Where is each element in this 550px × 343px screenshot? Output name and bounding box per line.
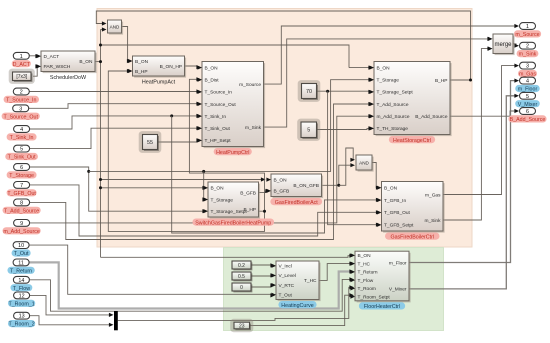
subsystem SchedulerDoW [36, 51, 96, 81]
svg-text:55: 55 [147, 140, 153, 146]
svg-text:0.5: 0.5 [238, 274, 245, 280]
wire inport9 m_Add_Source to HeatStorageCtrl [29, 114, 373, 223]
wire inport10 row to HeatingCurve T_Out [29, 245, 275, 297]
svg-text:T_Flow: T_Flow [358, 278, 374, 284]
wire HeatPumpCtrl m_Sink to merge in1 [264, 37, 493, 127]
svg-text:T_Room_1: T_Room_1 [8, 301, 34, 307]
svg-text:T_Storage_Setpt: T_Storage_Setpt [211, 209, 248, 215]
svg-text:4: 4 [526, 79, 529, 85]
inport 10 [12, 242, 31, 257]
svg-text:m_Sink: m_Sink [519, 52, 537, 58]
junction T_Sink_In branch [170, 114, 173, 117]
svg-text:T_GFB_Out: T_GFB_Out [7, 191, 36, 197]
svg-text:V_Incl: V_Incl [279, 264, 292, 270]
wire HeatPumpCtrl m_Source to outport1 [264, 24, 520, 84]
svg-text:B_ON: B_ON [358, 253, 372, 259]
svg-text:T_Room: T_Room [358, 286, 376, 292]
svg-text:B_ON: B_ON [205, 65, 219, 71]
svg-text:GasFiredBoilerCtrl: GasFiredBoilerCtrl [390, 234, 434, 240]
subsystem HeatingCurve [271, 261, 320, 309]
wire inport5 T_Sink_Out row [29, 126, 201, 149]
svg-text:11: 11 [18, 260, 24, 266]
svg-text:AND: AND [110, 25, 120, 30]
wire SchedulerDoW B_ON to junction [95, 61, 101, 63]
wire constant 0 to HeatingCurve V_RTC [251, 283, 275, 287]
wire inport1 D_ACT to SchedulerDoW [29, 54, 40, 58]
wire HeatPumpAct B_ON_HP to HeatPumpCtrl B_ON [185, 65, 202, 69]
logic AND U2 [356, 155, 374, 172]
svg-text:HeatPumpAct: HeatPumpAct [142, 79, 176, 85]
wire constant 0.2 to HeatingCurve V_Incl [251, 263, 275, 267]
junction B_ON to boiler act [99, 178, 102, 181]
svg-text:3: 3 [526, 64, 529, 70]
svg-text:B_HP: B_HP [435, 78, 448, 84]
svg-text:0.2: 0.2 [238, 263, 245, 269]
svg-text:T_Out: T_Out [14, 251, 29, 257]
svg-text:T_Source_In: T_Source_In [205, 90, 233, 96]
svg-text:HeatPumpCtrl: HeatPumpCtrl [216, 150, 249, 156]
svg-text:V_Mixer: V_Mixer [389, 287, 407, 293]
svg-text:m_Gas: m_Gas [425, 192, 441, 198]
wire GasFiredBoilerCtrl m_Sink to merge in2 [443, 47, 492, 221]
svg-text:SwitchGasFiredBoilerHeatPump: SwitchGasFiredBoilerHeatPump [195, 220, 271, 226]
svg-text:B_ON: B_ON [211, 186, 225, 192]
constant 5 [297, 119, 320, 141]
svg-text:14: 14 [18, 278, 24, 284]
wire inport6 T_Storage to Switch T_Storage_Setpt [29, 167, 207, 213]
svg-text:m_Floor: m_Floor [518, 87, 538, 93]
inport 1 [12, 52, 31, 67]
inport 3 [2, 105, 40, 120]
svg-text:B_Add_Source: B_Add_Source [415, 114, 448, 120]
svg-text:T_Storage: T_Storage [211, 197, 234, 203]
svg-text:T_Sink_Out: T_Sink_Out [205, 126, 231, 132]
wire T_Storage branch to Switch T_Storage [202, 171, 207, 201]
wire T_Storage row to HeatStorageCtrl [89, 78, 373, 172]
inport 7 [7, 182, 37, 197]
svg-text:m_Add_Source: m_Add_Source [377, 114, 410, 120]
wire inport2 T_Source_In row [29, 89, 201, 93]
wire constant 0.5 to HeatingCurve V_Level [251, 273, 275, 277]
svg-text:T_Return: T_Return [358, 270, 378, 276]
subsystem HeatPumpAct [128, 56, 186, 85]
wire Switch B_GFB to GasFiredBoilerAct B_GFB [259, 189, 271, 193]
outport 6 [508, 108, 546, 123]
inport 11 [7, 259, 34, 274]
svg-text:13: 13 [19, 314, 25, 320]
svg-text:T_Storage: T_Storage [9, 173, 34, 179]
subsystem GasFiredBoilerCtrl [377, 182, 445, 241]
svg-text:7: 7 [20, 183, 23, 189]
junction B_ON at y45 [99, 44, 102, 47]
area heat-generation (pink region) [97, 9, 472, 248]
junction B_ON_GFB [337, 184, 340, 187]
outport 2 [517, 42, 539, 57]
inport 8 [3, 199, 41, 214]
svg-text:m_Sink: m_Sink [245, 125, 262, 131]
label merge [494, 42, 512, 48]
inport 9 [3, 220, 41, 235]
svg-text:T_Add_Source: T_Add_Source [4, 208, 39, 214]
wire constant 5 to HeatStorageCtrl T_TH_Storage [317, 126, 374, 130]
svg-text:5: 5 [307, 128, 310, 134]
area floor-heating (green region) [224, 248, 444, 331]
wire constant 55 to HeatPumpCtrl T_HP_Setpt [158, 138, 202, 142]
inport 6 [7, 164, 37, 179]
svg-text:5: 5 [20, 147, 23, 153]
constant 0.2 [232, 261, 252, 270]
svg-text:B_ON: B_ON [79, 59, 93, 65]
svg-text:T_Source_Out: T_Source_Out [205, 102, 237, 108]
wire B_ON to HeatStorageCtrl B_ON [349, 66, 373, 70]
svg-text:T_HC: T_HC [304, 278, 317, 284]
svg-text:B_ON: B_ON [135, 59, 149, 65]
svg-text:5: 5 [526, 94, 529, 100]
wire B_ON_GFB branch to AND U2 in1 [339, 148, 355, 185]
junction B_HP feedback [469, 79, 472, 82]
inport 12 [8, 292, 35, 307]
subsystem SwitchGasFiredBoilerHeatPump [192, 182, 274, 226]
svg-text:2: 2 [526, 44, 529, 50]
inport 5 [5, 145, 38, 160]
junction B_ON at scheduler output [99, 60, 102, 63]
svg-text:2: 2 [20, 90, 23, 96]
svg-text:T_Sink_In: T_Sink_In [205, 114, 227, 120]
wire mux out to FloorHeaterCtrl T_Room [118, 285, 354, 320]
svg-text:B_ON: B_ON [377, 65, 391, 71]
wire B_ON to AND U1 in2 [101, 27, 107, 31]
constant 55 [139, 131, 162, 153]
svg-text:V_Level: V_Level [279, 273, 296, 279]
junction T_Storage at x88.7 [87, 170, 90, 173]
wire B_ON branch row to HeatStorageCtrl [101, 45, 350, 68]
wire B_ON to Switch B_ON [101, 186, 208, 190]
svg-text:FloorHeaterCtrl: FloorHeaterCtrl [364, 304, 400, 310]
wire FloorHeaterCtrl m_Floor to outport4 [409, 79, 519, 263]
mux block [114, 311, 118, 330]
svg-text:D_ACT: D_ACT [44, 54, 60, 60]
wire HeatStorageCtrl B_HP feedback to AND U1 in1 [96, 11, 470, 80]
wire merge out to outport2 [513, 44, 519, 48]
wire inport14 row to FloorHeaterCtrl T_Flow [30, 277, 354, 311]
svg-text:T_GFB_In: T_GFB_In [384, 198, 406, 204]
wire constant 23 to FloorHeaterCtrl T_Room_Setpt [250, 293, 355, 326]
wire inport7 T_GFB_Out to GasFiredBoilerCtrl T_GFB_Out [29, 185, 381, 236]
svg-text:GasFiredBoilerAct: GasFiredBoilerAct [275, 200, 319, 206]
wire GasFiredBoilerAct B_ON_GFB to AND U2 in2 [322, 163, 356, 185]
svg-text:V_Mixer: V_Mixer [518, 102, 538, 108]
logic AND U1 [108, 20, 124, 35]
wire FloorHeaterCtrl V_Mixer to outport5 [409, 94, 519, 289]
constant 0 [232, 283, 252, 292]
svg-text:T_Room_2: T_Room_2 [8, 322, 34, 328]
svg-text:T_Storage_Setpt: T_Storage_Setpt [377, 90, 414, 96]
subsystem HeatStorageCtrl [369, 62, 451, 144]
wire inport11 T_Return highlighted [29, 262, 350, 308]
outport 3 [518, 62, 537, 77]
svg-text:4: 4 [20, 127, 23, 133]
svg-text:HeatStorageCtrl: HeatStorageCtrl [393, 138, 431, 144]
wire 70 branch to GasFiredBoilerCtrl T_GFB_Setpt [328, 91, 381, 227]
svg-text:1: 1 [526, 24, 529, 30]
svg-text:merge: merge [494, 42, 512, 48]
svg-text:HeatingCurve: HeatingCurve [281, 303, 313, 309]
label AND U2 [359, 160, 369, 165]
outport 5 [515, 92, 540, 107]
svg-text:3: 3 [19, 106, 22, 112]
svg-text:T_Source_In: T_Source_In [6, 98, 36, 104]
junction B_ON to switch [99, 186, 102, 189]
svg-text:12: 12 [19, 293, 25, 299]
svg-text:V_RTC: V_RTC [279, 283, 295, 289]
svg-text:B_Add_Source: B_Add_Source [510, 117, 546, 123]
svg-text:B_GFB: B_GFB [274, 189, 290, 195]
svg-text:0: 0 [240, 285, 243, 291]
wire inport13 to mux in2 [29, 316, 114, 327]
svg-text:B_HP: B_HP [135, 69, 148, 75]
merge input arrows [488, 37, 493, 51]
svg-text:70: 70 [306, 89, 312, 95]
svg-text:8: 8 [20, 200, 23, 206]
svg-text:m_Source: m_Source [239, 82, 261, 88]
svg-text:D_ACT: D_ACT [13, 62, 31, 68]
svg-text:T_Storage: T_Storage [377, 78, 400, 84]
junction T_Storage to switch [202, 170, 205, 173]
svg-text:1: 1 [20, 54, 23, 60]
wire inport12 to mux in1 [29, 295, 114, 317]
svg-text:PAR_WSCH: PAR_WSCH [44, 64, 71, 70]
subsystem GasFiredBoilerAct [266, 174, 323, 206]
subsystem HeatPumpCtrl [197, 62, 265, 156]
inport 2 [4, 88, 39, 103]
svg-text:6: 6 [526, 109, 529, 115]
wire HeatStorageCtrl B_Add_Source to outport6 [450, 109, 519, 116]
svg-text:6: 6 [20, 165, 23, 171]
svg-text:m_Sink: m_Sink [425, 218, 442, 224]
junction 70 net [326, 90, 329, 93]
wire inport3 T_Source_Out row [29, 102, 201, 109]
svg-text:AND: AND [359, 160, 369, 165]
svg-text:T_GFB_Out: T_GFB_Out [384, 210, 411, 216]
arrow T_Return [349, 269, 354, 273]
svg-text:B_ON: B_ON [274, 177, 288, 183]
wire GasFiredBoilerCtrl m_Gas to outport3 [443, 64, 519, 195]
svg-text:T_Sink_In: T_Sink_In [10, 135, 34, 141]
junction Switch B_HP [263, 210, 266, 213]
wire inport8 T_Add_Source to HeatStorageCtrl [29, 102, 373, 240]
wire T_Sink_In branch to GasFiredBoilerCtrl T_GFB_In [172, 116, 381, 233]
svg-text:T_HP_Setpt: T_HP_Setpt [205, 138, 232, 144]
svg-text:T_Source_Out: T_Source_Out [3, 114, 38, 120]
svg-text:T_Add_Source: T_Add_Source [377, 102, 409, 108]
inport 4 [7, 126, 37, 141]
constant 0.5 [232, 272, 252, 281]
svg-text:9: 9 [20, 221, 23, 227]
wire B_ON to GasFiredBoilerAct B_ON [101, 177, 266, 181]
svg-text:m_Floor: m_Floor [389, 260, 407, 266]
svg-text:B_ON: B_ON [384, 185, 398, 191]
subsystem FloorHeaterCtrl [350, 251, 410, 310]
svg-text:T_GFB_Setpt: T_GFB_Setpt [384, 223, 414, 229]
wire B_ON to FloorHeaterCtrl B_ON [101, 254, 355, 258]
svg-text:23: 23 [239, 323, 245, 329]
svg-text:B_HP: B_HP [243, 207, 256, 213]
svg-text:T_Room_Setpt: T_Room_Setpt [358, 294, 391, 300]
wire HeatingCurve T_HC to FloorHeaterCtrl T_HC [319, 262, 354, 281]
constant 23 [230, 319, 253, 332]
merge block [493, 34, 515, 55]
svg-text:T_TH_Storage: T_TH_Storage [377, 126, 409, 132]
outport 1 [514, 23, 541, 38]
svg-text:T_Sink_Out: T_Sink_Out [8, 155, 36, 161]
wire Switch B_HP branch to HeatPumpCtrl B_Dist [189, 77, 264, 211]
svg-text:B_ON_HP: B_ON_HP [160, 64, 182, 70]
inport 13 [8, 312, 35, 327]
svg-text:m_Source: m_Source [515, 32, 539, 38]
inport 14 [10, 276, 32, 291]
wire inport4 T_Sink_In row [29, 114, 201, 129]
svg-text:10: 10 [18, 243, 24, 249]
svg-text:[7x3]: [7x3] [16, 74, 27, 80]
svg-text:T_Flow: T_Flow [13, 286, 31, 292]
wire constant [7x3] to SchedulerDoW PAR_WSCH [33, 64, 40, 76]
wire AND U2 out to GasFiredBoilerCtrl B_ON [372, 163, 381, 190]
svg-text:T_Out: T_Out [279, 292, 293, 298]
svg-text:m_Add_Source: m_Add_Source [3, 229, 40, 235]
wire Switch B_HP return to HeatPumpAct B_HP [108, 69, 264, 232]
svg-text:B_GFB: B_GFB [240, 190, 256, 196]
wire constant 70 to HeatStorageCtrl T_Storage_Setpt [317, 90, 374, 94]
svg-text:B_ON_GFB: B_ON_GFB [293, 183, 319, 189]
constant 70 [298, 80, 321, 102]
svg-text:B_Dist: B_Dist [205, 78, 220, 84]
wire AND U1 out to HeatPumpAct B_ON [122, 27, 132, 64]
label AND U1 [110, 25, 120, 30]
svg-text:T_Return: T_Return [10, 268, 32, 274]
wire B_ON vertical trunk [100, 30, 102, 258]
svg-text:T_HC: T_HC [358, 261, 371, 267]
outport 4 [515, 77, 540, 92]
svg-text:SchedulerDoW: SchedulerDoW [50, 75, 87, 81]
constant [7x3] [9, 69, 35, 84]
